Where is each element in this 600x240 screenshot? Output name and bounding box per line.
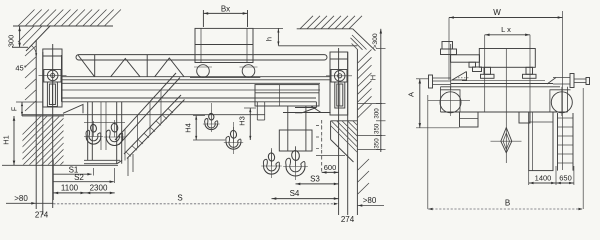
end truck right wheel [326, 71, 352, 82]
svg-text:W: W [493, 8, 501, 17]
trolley body [195, 28, 253, 62]
left wall 45-deg chamfer [26, 26, 51, 52]
dimension S3 [296, 174, 339, 185]
svg-text:274: 274 [35, 211, 49, 220]
runner wheel right [551, 92, 572, 113]
staircase [115, 73, 185, 176]
svg-text:L x: L x [501, 25, 511, 34]
svg-text:S: S [177, 194, 182, 203]
end truck right body [330, 52, 348, 115]
dimension 300-350-350 [374, 108, 386, 150]
svg-text:350: 350 [374, 138, 381, 149]
dimension gt80 left [6, 194, 36, 205]
dimension gt80 right [358, 196, 385, 207]
hoist frame box [255, 85, 319, 106]
svg-text:S4: S4 [290, 189, 300, 198]
svg-text:>300: >300 [372, 33, 379, 49]
ground line left [36, 202, 53, 204]
hoist frame chamfer [283, 106, 331, 113]
svg-text:A: A [406, 92, 415, 97]
dimension H right [368, 75, 385, 104]
svg-text:>80: >80 [14, 194, 28, 203]
wheel centerline left [450, 87, 452, 116]
girder top line [62, 76, 330, 78]
main hook 1 [93, 121, 95, 137]
svg-text:274: 274 [341, 215, 355, 224]
angle 45 label [15, 46, 37, 73]
block hook small centerline [271, 148, 273, 178]
dimension F [12, 102, 44, 116]
hoist under frame [257, 102, 264, 120]
end truck left wheel [39, 70, 67, 81]
hoist pedestal right [523, 67, 537, 78]
svg-text:350: 350 [374, 123, 381, 134]
right wall [356, 49, 358, 215]
phantom position line [316, 120, 322, 173]
pulley block [491, 128, 522, 153]
trolley deck lines [441, 81, 561, 87]
end truck left buffer [47, 82, 57, 107]
right wall hatch marks [358, 50, 372, 118]
dimension A [406, 79, 459, 128]
ceiling hatch left [18, 10, 121, 27]
dimension H4 [183, 116, 225, 141]
svg-text:H: H [368, 75, 377, 80]
main hook 2 [114, 120, 116, 137]
dimension Bx [203, 5, 247, 28]
girder bottom flange [62, 98, 316, 102]
trolley wheel right [240, 65, 258, 78]
dimension S4 [272, 189, 339, 200]
upper rail right [278, 45, 357, 47]
girder web line [62, 89, 320, 91]
girder mid line [62, 82, 320, 84]
left wall [35, 40, 37, 209]
svg-text:300: 300 [7, 35, 16, 48]
wheel centerline right [561, 87, 563, 116]
drum centerline 1 [484, 35, 486, 112]
right wall bracket lines [316, 104, 382, 156]
end truck right buffer [335, 82, 345, 108]
buffer left [429, 75, 451, 88]
ladder [558, 113, 574, 171]
dimension S line [53, 203, 338, 205]
svg-text:300: 300 [374, 108, 381, 119]
svg-text:F: F [12, 107, 19, 111]
girder right end step [295, 102, 316, 113]
svg-text:45°: 45° [15, 64, 26, 73]
crab motor [441, 42, 482, 81]
girder rail line [62, 79, 330, 81]
hook cage frame [84, 102, 125, 164]
svg-text:1400: 1400 [535, 174, 552, 183]
svg-text:H3: H3 [237, 116, 246, 126]
left wall hatch marks [25, 46, 36, 111]
dimension 1400-650 [529, 166, 574, 185]
end truck left wheel box [44, 70, 61, 83]
svg-text:600: 600 [324, 163, 337, 172]
girder left end [61, 55, 63, 102]
right leg box [529, 112, 553, 171]
end truck right wheel box [331, 70, 347, 83]
left corbel top line [22, 115, 64, 117]
hoist pedestal left [481, 67, 495, 78]
dimension gt300 right [372, 29, 386, 152]
trolley rail line [190, 76, 260, 78]
right corbel hatched [322, 117, 404, 167]
svg-text:H4: H4 [183, 123, 192, 133]
dimension B [428, 88, 583, 210]
girder section right [519, 112, 530, 123]
girder section left [460, 112, 479, 127]
right rail centerline [338, 48, 340, 215]
support wedge [63, 105, 83, 114]
dimension H3 [237, 108, 256, 140]
walkway truss braces [78, 55, 184, 77]
rail level line [22, 114, 265, 116]
axle centerline [428, 99, 470, 101]
dimension S2 [53, 168, 114, 183]
dimension 1100-2300 [53, 184, 114, 195]
svg-text:1100: 1100 [61, 184, 79, 193]
bottom block [279, 106, 312, 151]
floor line left [2, 164, 118, 166]
drum centerline 2 [529, 35, 531, 112]
svg-text:H1: H1 [2, 135, 11, 145]
crab hoist box [479, 49, 535, 68]
chamfer hatch [18, 26, 42, 46]
ceiling line left [13, 25, 113, 27]
end truck left body [43, 49, 62, 107]
runway rail centerline [52, 44, 54, 208]
svg-text:S3: S3 [310, 174, 320, 183]
runway rail line a [42, 52, 44, 215]
runner wheel left [440, 92, 461, 113]
svg-text:2300: 2300 [90, 184, 108, 193]
right rail line b [347, 52, 349, 215]
dimension Lx [485, 25, 530, 36]
dimension S1 [53, 160, 93, 200]
crab left edge [450, 44, 452, 90]
dimension W [449, 8, 563, 170]
svg-text:>80: >80 [363, 196, 377, 205]
wheel housing left [440, 87, 461, 112]
svg-text:h: h [265, 37, 274, 41]
aux hook large centerline [233, 122, 235, 154]
ceiling line right [297, 28, 353, 30]
ceiling hatch right [300, 16, 362, 29]
svg-text:Bx: Bx [221, 5, 230, 14]
trolley wheel left [194, 65, 212, 78]
block hook large [295, 147, 297, 166]
aux hook small [210, 110, 212, 124]
aux hook large [233, 127, 235, 143]
svg-text:B: B [505, 199, 510, 208]
dimension H1 [2, 116, 16, 165]
wheel housing right [550, 87, 571, 112]
crab hook stem [505, 49, 507, 164]
dimension S arrow [334, 203, 338, 206]
aux hook small centerline [210, 103, 212, 132]
walkway handrail [76, 55, 327, 60]
buffer right [547, 74, 590, 88]
block hook small [271, 150, 273, 167]
block hook large centerline [295, 146, 297, 180]
right wall lower hatch [358, 159, 369, 194]
svg-text:S2: S2 [74, 173, 84, 182]
dimension h [253, 28, 283, 45]
right wall chamfer [351, 29, 376, 51]
dimension 600 [322, 148, 339, 174]
left corbel hatch [0, 115, 110, 165]
dimension 300 left [7, 26, 29, 47]
carriage bottom line [441, 111, 568, 113]
svg-text:650: 650 [559, 174, 572, 183]
